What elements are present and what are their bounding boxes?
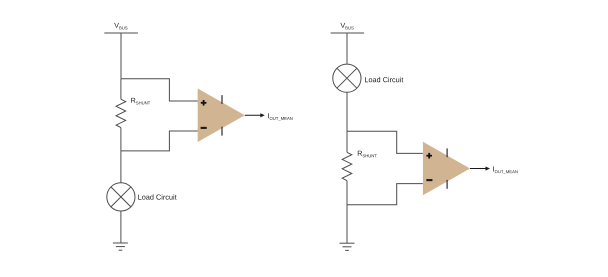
resistor R1 RSHUNT (left) [116, 99, 126, 127]
wire resistor R2 to node D [346, 181, 348, 205]
wire node B to lamp (left) [120, 151, 122, 183]
wire VBUS bar to node A (left rail) [120, 33, 122, 79]
label Load Circuit (right) [365, 77, 403, 82]
op-amp U2 positive supply pin tick [446, 148, 448, 157]
supply rail bar VBUS (left) [104, 32, 138, 34]
op-amp U2 (right) [423, 142, 470, 196]
op-amp U1 positive supply pin tick [221, 95, 223, 104]
wire node C to op-amp U2 non-inverting input [347, 131, 423, 153]
lamp load circuit symbol (left) [107, 183, 135, 211]
ground (left) [113, 243, 128, 250]
op-amp U1 plus sign (non-inverting input) [201, 100, 207, 106]
op-amp U2 plus sign (non-inverting input) [426, 153, 432, 159]
wire node C to resistor R2 [346, 131, 348, 152]
label IOUT_MEAN (right) [493, 167, 517, 174]
label Load Circuit (left) [138, 194, 176, 199]
wire lamp to ground (left) [120, 211, 122, 243]
node VBUS label (right) [340, 23, 353, 30]
wire lamp to node C (right) [346, 92, 348, 131]
ground (right) [340, 243, 355, 250]
wire op-amp U2 output [470, 168, 486, 170]
wire VBUS bar to lamp (right rail) [346, 33, 348, 64]
op-amp U1 negative supply pin tick [221, 127, 223, 136]
lamp load circuit symbol (right) [333, 64, 361, 92]
supply rail bar VBUS (right) [331, 32, 365, 34]
wire node A to resistor R1 [120, 79, 122, 99]
label IOUT_MEAN (left) [268, 113, 292, 120]
op-amp U2 negative supply pin tick [446, 180, 448, 189]
wire resistor R1 to node B [120, 128, 122, 151]
op-amp U2 minus sign (inverting input) [426, 179, 432, 181]
arrowhead op-amp U2 output [486, 166, 491, 170]
op-amp U1 minus sign (inverting input) [201, 127, 207, 129]
label RSHUNT (right) [358, 151, 377, 158]
wire node D to ground (right) [346, 205, 348, 243]
wire node D to op-amp U2 inverting input [347, 184, 423, 205]
op-amp U1 (left) [198, 89, 245, 143]
arrowhead op-amp U1 output [260, 113, 265, 117]
resistor R2 RSHUNT (right) [342, 152, 352, 180]
wire node A to op-amp U1 non-inverting input [121, 79, 198, 101]
wire node B to op-amp U1 inverting input [121, 131, 198, 151]
wire op-amp U1 output [245, 114, 261, 116]
label RSHUNT (left) [131, 98, 150, 105]
node VBUS label (left) [114, 23, 127, 30]
